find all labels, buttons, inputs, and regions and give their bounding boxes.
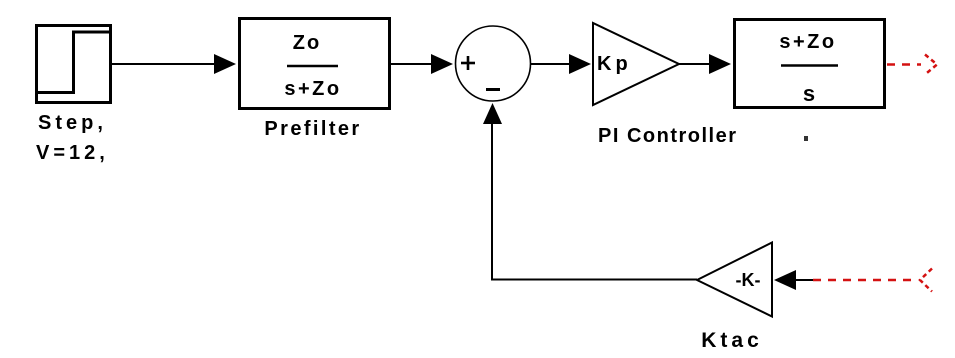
transfer block (s+Zo)/s — [735, 20, 885, 108]
label Prefilter — [264, 118, 361, 140]
gain Ktac -K- — [697, 243, 772, 317]
wire Kp to transfer block — [679, 54, 731, 74]
svg-text:s+Zo: s+Zo — [779, 31, 836, 53]
svg-text:Ktac: Ktac — [701, 329, 763, 352]
wire prefilter to sum — [391, 54, 453, 74]
summing junction — [456, 26, 531, 101]
wire sum to Kp — [531, 54, 592, 74]
label Step, V=12, — [36, 112, 109, 164]
gain Kp — [593, 23, 679, 105]
svg-text:PI Controller: PI Controller — [598, 125, 738, 147]
wire step to prefilter — [112, 54, 236, 74]
svg-text:s+Zo: s+Zo — [284, 78, 341, 100]
svg-text:Step,: Step, — [38, 112, 107, 134]
svg-text:-K-: -K- — [736, 270, 761, 290]
svg-text:V=12,: V=12, — [36, 142, 109, 164]
red dashed feedback input line with chevron — [813, 269, 932, 292]
label PI Controller — [598, 125, 738, 147]
svg-text:Zo: Zo — [293, 32, 321, 54]
svg-text:Kp: Kp — [597, 53, 632, 75]
prefilter block (Zo)/(s+Zo) — [240, 19, 390, 109]
label Ktac — [701, 329, 763, 352]
tiny label mark — [804, 136, 808, 141]
step source block — [37, 26, 111, 103]
output red dashed arrow — [887, 55, 937, 75]
svg-text:s: s — [803, 81, 815, 106]
feedback input black arrow — [774, 270, 813, 290]
feedback wire into sum minus input — [483, 103, 697, 281]
svg-text:Prefilter: Prefilter — [264, 118, 361, 140]
